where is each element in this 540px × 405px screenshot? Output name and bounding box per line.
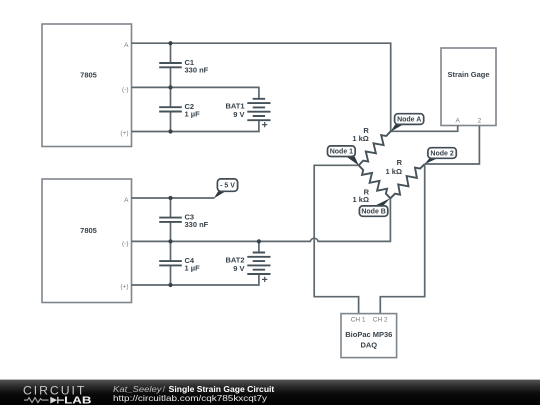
svg-text:Node 1: Node 1 [330,149,353,156]
svg-text:CH 2: CH 2 [373,317,388,324]
node label Node B [359,198,390,216]
svg-text:http://circuitlab.com/cqk785kx: http://circuitlab.com/cqk785kxcqt7y [113,393,268,403]
svg-text:1 kΩ: 1 kΩ [352,134,368,143]
svg-text:1 µF: 1 µF [185,263,201,272]
svg-text:Node B: Node B [361,209,386,216]
svg-text:Strain Gage: Strain Gage [447,70,489,79]
node label Node 1 [328,146,359,166]
capacitor C2 value label [185,102,201,119]
svg-text:Node 2: Node 2 [430,151,453,158]
battery BAT1 [247,99,270,120]
wire U1.(-) to BAT1 top [132,87,259,98]
resistor R3 value label [386,158,403,176]
capacitor C3 [159,218,182,222]
battery BAT1 value label [225,102,244,120]
svg-text:9 V: 9 V [233,110,244,119]
svg-text:7805: 7805 [80,226,97,235]
capacitor C2 leads [170,87,172,131]
svg-text:(-): (-) [122,87,129,94]
node label Node A [391,114,424,132]
capacitor C4 value label [185,256,201,273]
svg-text:1 kΩ: 1 kΩ [386,167,402,176]
svg-text:Node A: Node A [397,117,421,124]
capacitor C3 value label [185,212,209,229]
svg-text:7805: 7805 [80,70,97,79]
junction dot U2.(+) / C4 [168,283,172,287]
junction dot (+)-wire / C2 [168,129,172,133]
wire SG1.A to node A [391,126,458,132]
junction dot (-)-wire / BAT2 top [257,239,261,243]
battery BAT2 plus sign [262,277,267,282]
wire U2.(-) to node B riser (with hop) [132,198,391,241]
svg-text:1 kΩ: 1 kΩ [353,195,369,204]
net flag -5V [214,179,238,199]
svg-text:A: A [456,118,461,125]
svg-text:A: A [124,197,129,204]
svg-text:BioPac MP36: BioPac MP36 [345,330,392,339]
svg-text:R: R [397,158,403,167]
battery BAT2 value label [225,255,244,273]
resistor R1 value label [352,126,369,143]
junction dot A-wire / C1 [168,41,172,45]
svg-text:1 µF: 1 µF [185,110,201,119]
svg-text:A: A [124,42,129,49]
wire U2.A to -5V flag [132,197,215,199]
capacitor C2 [159,107,182,111]
resistor R2 (node 1 - node B) [359,165,391,198]
strain gage box SG1 [441,48,496,126]
CircuitLab logo resistor-diode squiggle [24,397,64,404]
svg-text:- 5 V: - 5 V [220,183,235,190]
wire U1.A to bridge node A [132,43,391,131]
wire U1.(+) to BAT1 bottom [132,120,259,131]
svg-text:(+): (+) [120,283,128,290]
svg-text:9 V: 9 V [233,264,244,273]
svg-text:(+): (+) [120,130,128,137]
wire node 2 to CH2 riser [380,164,424,314]
wire BAT2 top lead [258,241,260,252]
svg-text:(-): (-) [122,241,129,248]
capacitor C4 [159,261,182,265]
svg-text:DAQ: DAQ [360,341,377,350]
svg-text:2: 2 [478,118,482,125]
resistor R2 value label [353,187,370,204]
junction dot (-)-wire / C1 C2 [168,85,172,89]
junction dot U2.A / C3 [168,196,172,200]
junction dot U2.(-) / C3 C4 [168,239,172,243]
capacitor C1 leads [170,43,172,87]
wire U2.(+) to BAT2 bottom [132,274,259,285]
wire SG1.2 to node 2 [425,126,480,165]
battery BAT2 [247,253,270,275]
capacitor C1 [159,63,182,67]
resistor R1 (node A - node 1) [359,131,391,165]
footer bar [0,380,540,405]
capacitor C3 leads [170,198,172,241]
svg-text:LAB: LAB [64,395,91,405]
svg-text:330 nF: 330 nF [185,220,209,229]
capacitor C1 value label [185,58,209,75]
battery BAT1 plus sign [262,122,267,127]
capacitor C4 leads [170,241,172,285]
svg-text:330 nF: 330 nF [185,65,209,74]
resistor R3 (node 2 - node B) [390,164,424,198]
node label Node 2 [425,148,457,165]
regulator U1 7805 (top) [42,24,132,147]
wire node 1 to CH1 riser [314,165,359,313]
svg-text:CH 1: CH 1 [351,317,366,324]
DAQ box BioPac MP36 [341,314,397,358]
regulator U2 7805 (bottom) [42,179,132,303]
